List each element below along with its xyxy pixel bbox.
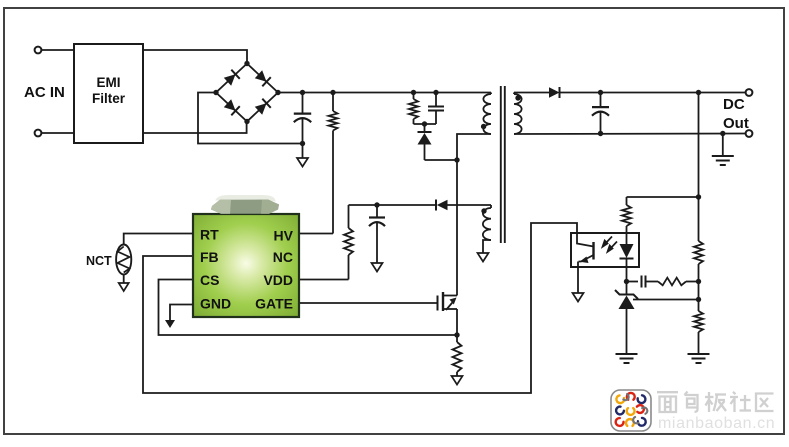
opto phototransistor — [577, 239, 594, 293]
svg-text:GATE: GATE — [255, 296, 293, 312]
node output cap top — [598, 90, 603, 95]
node bulk cap bottom — [300, 141, 305, 146]
node bulk cap top — [300, 90, 305, 95]
secondary ground — [712, 134, 734, 166]
bulk capacitor C1 — [294, 93, 311, 144]
bridge diode D4 (left to bottom) — [223, 99, 240, 116]
sense resistor ground arrow — [452, 376, 463, 385]
AC input terminal top — [35, 47, 42, 54]
transformer aux winding — [483, 205, 491, 240]
node snubber resistor — [411, 90, 416, 95]
wire EMI top to bridge — [143, 50, 247, 63]
IC pin label VDD — [263, 272, 293, 288]
wire drain — [456, 293, 458, 296]
node vdd cap — [374, 202, 379, 207]
node HV resistor top — [330, 90, 335, 95]
opto emitter ground arrow — [573, 293, 584, 302]
vdd cap ground arrow — [372, 263, 383, 272]
wire HV pin — [299, 233, 333, 235]
output capacitor C3 — [592, 93, 609, 134]
wire source — [456, 309, 458, 335]
svg-text:EMI: EMI — [96, 75, 120, 90]
output diode D6 — [549, 87, 560, 98]
IC pin label GND — [200, 296, 231, 312]
vdd resistor R3 — [344, 205, 353, 280]
svg-text:DC: DC — [723, 96, 745, 113]
IC masked marking blob — [211, 195, 279, 214]
wire aux to vdd node — [349, 204, 437, 206]
transformer primary winding — [483, 93, 491, 135]
divider resistor R7 upper — [694, 241, 703, 264]
IC pin label HV — [274, 228, 294, 244]
svg-text:RT: RT — [200, 227, 219, 243]
snubber diode D5 — [418, 124, 432, 160]
vdd capacitor C4 — [369, 205, 385, 263]
divider ground — [688, 354, 710, 363]
wire LED feed — [627, 196, 699, 198]
IC pin label GATE — [255, 296, 293, 312]
transformer secondary winding — [514, 93, 522, 135]
TL431 ground — [616, 354, 638, 363]
thermistor ground arrow — [119, 275, 129, 292]
primary ground arrow — [297, 144, 308, 167]
IC pin label CS — [200, 272, 219, 288]
wire divider drop — [698, 93, 700, 242]
svg-text:NC: NC — [273, 249, 293, 265]
svg-text:Filter: Filter — [92, 91, 126, 106]
bridge diode D2 (bottom to right) — [254, 99, 271, 116]
aux winding ground — [478, 240, 492, 262]
wire gate — [299, 302, 438, 304]
primary phase dot — [481, 124, 486, 129]
svg-text:mianbaoban.cn: mianbaoban.cn — [658, 415, 775, 432]
wire AC top to EMI — [41, 49, 74, 51]
controller IC U1 — [193, 214, 299, 317]
IC pin label RT — [200, 227, 219, 243]
IC ground — [165, 305, 193, 329]
thermistor NCT — [116, 245, 131, 275]
svg-text:FB: FB — [200, 249, 219, 265]
compensation capacitor C5 — [627, 276, 659, 288]
wire CS return — [159, 280, 458, 336]
optocoupler U2 body — [571, 233, 639, 267]
wire TL431 ref — [633, 299, 699, 301]
IC pin label NC — [273, 249, 293, 265]
aux phase dot — [481, 208, 486, 213]
mosfet Q1 — [438, 292, 458, 311]
node output ground — [720, 131, 725, 136]
bridge node left — [213, 90, 218, 95]
svg-text:VDD: VDD — [263, 272, 293, 288]
wire VDD pin — [299, 279, 349, 281]
node compensation join — [696, 279, 701, 284]
DC output terminal minus — [746, 130, 753, 137]
bridge diode D1 (top to right) — [254, 70, 271, 87]
svg-text:GND: GND — [200, 296, 231, 312]
wire primary bottom to drain — [457, 134, 491, 293]
node ref join — [696, 297, 701, 302]
transformer core — [501, 86, 505, 243]
node snubber diode — [422, 121, 427, 126]
snubber resistor R2 — [409, 93, 418, 125]
EMI filter block — [74, 44, 143, 143]
wire RT to thermistor — [124, 234, 193, 245]
watermark logo icon — [611, 390, 651, 431]
wire bridge negative return — [198, 93, 303, 144]
bridge node right — [275, 90, 280, 95]
startup resistor R1 — [329, 93, 338, 234]
sense resistor R4 — [453, 335, 462, 376]
bridge node bottom — [244, 119, 249, 124]
svg-text:HV: HV — [274, 228, 294, 244]
wire HV rail — [278, 92, 491, 94]
snubber capacitor C2 — [428, 93, 444, 125]
node TL431 cathode — [624, 279, 629, 284]
AC input terminal bottom — [35, 130, 42, 137]
svg-text:CS: CS — [200, 272, 219, 288]
shunt regulator TL431 — [615, 282, 638, 355]
node divider top — [696, 90, 701, 95]
bridge diode D3 (left to top) — [223, 70, 240, 87]
svg-text:NCT: NCT — [86, 254, 112, 268]
label DC Out — [723, 96, 749, 132]
opto light arrows — [603, 237, 618, 252]
svg-text:AC IN: AC IN — [24, 84, 65, 101]
node LED feed — [696, 194, 701, 199]
opto LED — [620, 244, 634, 282]
opto LED resistor R6 — [622, 197, 631, 244]
wire output rail top — [560, 92, 746, 94]
compensation resistor R9 — [658, 278, 699, 286]
wire snubber bottom join — [414, 123, 437, 125]
node snubber capacitor — [433, 90, 438, 95]
wire divider mid — [698, 264, 700, 311]
label NCT — [86, 254, 112, 268]
svg-text:Out: Out — [723, 115, 749, 132]
wire AC bottom to EMI — [41, 132, 74, 134]
aux diode D7 — [436, 200, 491, 211]
bridge node top — [244, 61, 249, 66]
node output cap bottom — [598, 131, 603, 136]
wire snubber to drain — [425, 159, 458, 161]
label AC IN — [24, 84, 65, 101]
node source — [454, 332, 459, 337]
DC output terminal plus — [746, 89, 753, 96]
bridge rectifier frame — [216, 64, 278, 122]
wire secondary top — [514, 92, 549, 94]
divider resistor R8 lower — [694, 311, 703, 354]
wire secondary bottom rail — [514, 133, 746, 136]
node drain snubber junction — [454, 157, 459, 162]
wire FB network — [143, 223, 577, 393]
IC pin label FB — [200, 249, 219, 265]
watermark text — [657, 392, 775, 433]
wire EMI bottom to bridge — [143, 122, 247, 134]
secondary phase dot — [515, 95, 520, 100]
